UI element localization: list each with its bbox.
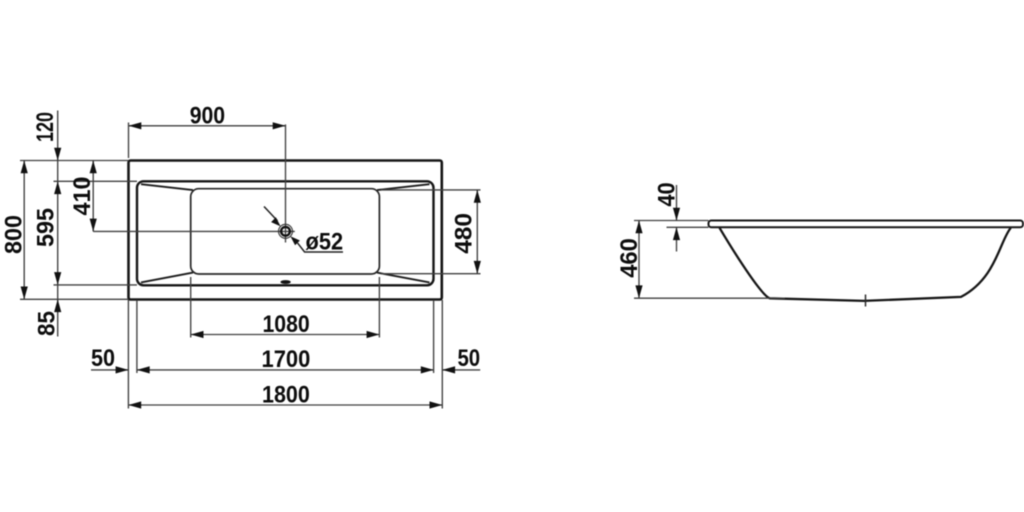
plan view: inner rim rounded rectangle <box>137 181 434 285</box>
dim 460: bottom arrow <box>635 285 642 298</box>
dim 480: bottom extension line <box>381 273 481 275</box>
drain: inner ring <box>281 227 290 236</box>
svg-text:50: 50 <box>457 345 480 372</box>
plan view: bath floor rectangle <box>191 189 380 274</box>
drain leader line lower with underline <box>298 243 344 252</box>
bottom extension: floor left edge <box>190 277 192 338</box>
svg-text:40: 40 <box>653 182 680 206</box>
drain leader arrow upper <box>271 217 281 226</box>
dim 480: top arrow <box>474 190 481 203</box>
side dim: rim bottom extension line <box>667 226 709 228</box>
dim 800: bottom arrow <box>21 287 28 300</box>
plan view: corner slope line top-left <box>141 184 193 190</box>
svg-text:50: 50 <box>91 345 115 372</box>
dim 480: top extension line <box>381 189 481 191</box>
dim 1080: left arrow <box>191 331 204 338</box>
bottom extension: rim left edge <box>136 300 138 373</box>
dim 410: bottom arrow <box>90 219 97 232</box>
bottom extension: outer right edge <box>441 300 443 409</box>
left extension: rim bottom edge <box>54 284 138 286</box>
bottom extension: outer left edge <box>127 300 129 409</box>
dim 1800: left arrow <box>128 401 141 408</box>
dim 120/595: shared arrow up at rim top <box>54 181 61 194</box>
drain: outer circle <box>279 224 293 238</box>
svg-text:480: 480 <box>450 213 477 254</box>
plan view: outer tub rectangle <box>129 161 442 300</box>
dim 120: arrow down at outer top <box>54 148 61 161</box>
side view: bottom center tick <box>865 295 867 307</box>
drain leader line upper <box>264 207 278 221</box>
dim 40: dimension line upper part <box>676 185 678 221</box>
svg-text:800: 800 <box>0 215 27 254</box>
svg-text:1800: 1800 <box>262 382 310 409</box>
svg-text:410: 410 <box>69 177 96 216</box>
dim 480: bottom arrow <box>474 261 481 274</box>
dim chain 120/595/85: shared dimension line <box>57 111 59 337</box>
dim 50 right: tail line <box>442 369 480 371</box>
dim 85: arrow up at outer bottom <box>54 299 61 312</box>
svg-text:460: 460 <box>616 238 643 278</box>
plan view: corner slope line bottom-right <box>377 273 430 283</box>
svg-text:120: 120 <box>32 112 59 142</box>
drain: crosshair horizontal centerline <box>93 230 295 232</box>
left extension: outer bottom edge <box>20 298 129 300</box>
svg-text:ø52: ø52 <box>306 229 344 256</box>
plan view: overflow slot on bottom wall <box>280 280 290 284</box>
dim 1800: dimension line <box>128 404 442 406</box>
dim 410: top arrow <box>90 161 97 174</box>
dim 900: left arrow <box>129 122 142 129</box>
dim 40: dimension line lower part <box>676 227 678 251</box>
dim 460: top arrow <box>635 221 642 234</box>
svg-text:900: 900 <box>190 103 225 130</box>
plan view: corner slope line bottom-left <box>141 273 193 283</box>
dim 900: right arrow <box>273 122 286 129</box>
left extension: outer top edge <box>20 160 129 162</box>
drain leader arrow lower <box>290 236 300 245</box>
dim 1080: dimension line <box>191 334 380 336</box>
side view: tub body outline <box>720 228 1011 301</box>
dim 480: dimension line <box>476 190 478 274</box>
dim 1700: left arrow <box>137 366 150 373</box>
svg-text:595: 595 <box>32 208 59 247</box>
svg-text:1700: 1700 <box>262 346 311 373</box>
dim 800: dimension line <box>23 161 25 300</box>
svg-text:85: 85 <box>33 311 60 336</box>
dim 50 left: arrow <box>116 366 129 373</box>
dim 410: dimension line <box>92 161 94 232</box>
dim 1080: right arrow <box>367 331 380 338</box>
side dim: bottom extension line <box>634 297 785 299</box>
dim 900: dimension line <box>129 125 286 127</box>
dim 595/85: shared arrow down at rim bottom <box>54 272 61 285</box>
dim 50 left: tail line <box>91 369 128 371</box>
dim 1800: right arrow <box>430 401 443 408</box>
dim 800: top arrow <box>21 161 28 174</box>
dim 460: dimension line <box>638 221 640 299</box>
drain: crosshair vertical centerline <box>285 124 287 242</box>
dim 1700: dimension line <box>137 369 434 371</box>
dim 40: arrow up <box>673 227 680 240</box>
side dim: rim top extension line <box>634 220 709 222</box>
bottom extension: floor right edge <box>378 277 380 338</box>
dim 900: left extension line <box>128 123 130 159</box>
plan view: corner slope line top-right <box>377 184 430 190</box>
left extension: rim top edge <box>54 180 138 182</box>
dim 50 right: arrow <box>442 366 455 373</box>
dim 40: arrow down <box>673 208 680 221</box>
bottom extension: rim right edge <box>433 300 435 373</box>
side view: rim bar <box>709 221 1024 228</box>
dim 1700: right arrow <box>421 366 434 373</box>
svg-text:1080: 1080 <box>262 311 309 338</box>
